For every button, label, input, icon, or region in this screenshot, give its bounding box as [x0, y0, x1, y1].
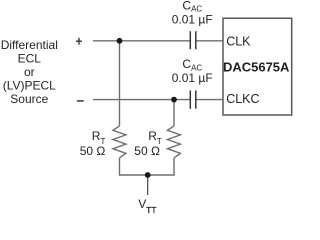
resistor RT left zigzag	[113, 126, 126, 158]
wire left vertical from + junction down to RT	[119, 41, 121, 126]
capacitor C_AC top plates	[190, 31, 196, 49]
wire bottom rail	[119, 174, 175, 176]
svg-text:0.01 µF: 0.01 µF	[172, 71, 213, 85]
IC U1 DAC5675A box	[223, 18, 292, 115]
svg-text:CAC: CAC	[182, 57, 202, 73]
wire bottom capacitor to CLKC pin	[197, 99, 224, 101]
capacitor C_AC bottom plates	[190, 90, 196, 108]
svg-text:CLKC: CLKC	[226, 92, 259, 106]
junction dot on + wire	[117, 38, 123, 44]
svg-text:Source: Source	[10, 92, 48, 106]
svg-text:CLK: CLK	[226, 34, 251, 48]
wire right resistor bottom	[173, 158, 175, 175]
junction dot on - wire	[171, 97, 177, 103]
wire left resistor bottom	[119, 158, 121, 175]
svg-text:(LV)PECL: (LV)PECL	[3, 79, 56, 93]
svg-text:or: or	[24, 65, 35, 79]
node + (positive input)	[76, 38, 82, 45]
source label Differential ECL or (LV)PECL Source	[1, 38, 58, 106]
wire right vertical from - junction down to RT	[173, 100, 175, 126]
svg-text:0.01 µF: 0.01 µF	[172, 13, 213, 27]
svg-text:CAC: CAC	[182, 0, 202, 14]
wire VTT stub	[147, 175, 149, 195]
svg-text:50 Ω: 50 Ω	[80, 144, 106, 158]
wire - to bottom capacitor plate	[93, 99, 190, 101]
resistor RT right zigzag	[167, 126, 180, 158]
node - (negative input)	[77, 100, 84, 102]
junction dot on bottom rail	[145, 172, 151, 178]
wire + to left capacitor plate	[93, 40, 190, 42]
svg-text:ECL: ECL	[18, 51, 42, 65]
svg-text:DAC5675A: DAC5675A	[223, 59, 290, 74]
svg-text:50 Ω: 50 Ω	[134, 144, 160, 158]
svg-text:VTT: VTT	[138, 197, 156, 214]
svg-text:Differential: Differential	[1, 38, 58, 52]
wire top capacitor to CLK pin	[197, 40, 224, 42]
